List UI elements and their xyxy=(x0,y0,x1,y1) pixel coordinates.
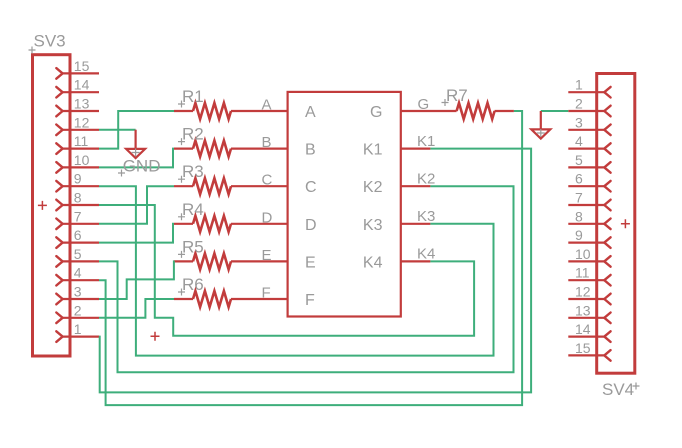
svg-text:12: 12 xyxy=(575,284,591,300)
wire SV4 p2 to GND2 xyxy=(541,110,569,112)
wire p2 to R6 (net F) xyxy=(99,299,174,318)
svg-text:13: 13 xyxy=(74,96,90,112)
wire p11 to R1 (net A) xyxy=(99,111,174,149)
SV3 pin 10 xyxy=(56,152,99,173)
svg-text:K4: K4 xyxy=(417,246,435,263)
ground GND2 xyxy=(531,111,550,139)
svg-text:1: 1 xyxy=(74,321,82,337)
wire p4 to R7 (net G) xyxy=(99,111,522,405)
SV3 pin 15 xyxy=(56,58,99,79)
resistor R5 xyxy=(174,237,288,269)
SV3 pin 14 xyxy=(56,77,99,98)
SV3 pin 8 xyxy=(56,190,99,211)
svg-text:C: C xyxy=(305,179,317,196)
connector SV3 body xyxy=(33,55,71,356)
svg-text:B: B xyxy=(262,134,272,151)
GND label xyxy=(118,157,160,177)
svg-text:E: E xyxy=(305,254,316,271)
svg-text:R4: R4 xyxy=(182,200,204,219)
resistor R6 xyxy=(174,275,288,307)
wire p5 to K2 xyxy=(99,186,514,372)
svg-text:GND: GND xyxy=(123,157,161,176)
U1 pin stub K3 xyxy=(401,223,431,225)
svg-text:2: 2 xyxy=(74,302,82,318)
SV4 pin 13 xyxy=(568,302,610,323)
svg-text:R5: R5 xyxy=(182,237,204,256)
SV3 pin 6 xyxy=(56,227,99,248)
svg-text:11: 11 xyxy=(575,265,590,281)
svg-text:3: 3 xyxy=(575,114,583,130)
ground GND xyxy=(126,130,145,158)
SV4 pin 8 xyxy=(568,208,610,229)
wire p3 to R5 (net E) xyxy=(99,261,175,299)
wire p9 to K3 xyxy=(99,186,494,355)
svg-text:K1: K1 xyxy=(363,142,383,159)
svg-text:A: A xyxy=(262,97,272,114)
SV3 origin cross xyxy=(38,201,47,210)
svg-text:K2: K2 xyxy=(417,170,435,187)
svg-text:10: 10 xyxy=(74,152,90,168)
svg-text:12: 12 xyxy=(74,114,90,130)
U1 pin stub K1 xyxy=(401,148,431,150)
svg-text:R2: R2 xyxy=(182,125,204,144)
svg-text:15: 15 xyxy=(575,340,591,356)
resistor R1 xyxy=(174,87,288,119)
svg-text:R7: R7 xyxy=(446,86,468,105)
svg-text:15: 15 xyxy=(74,58,90,74)
svg-text:R1: R1 xyxy=(182,87,204,106)
svg-text:F: F xyxy=(305,292,315,309)
svg-text:6: 6 xyxy=(575,171,583,187)
SV4 pin 6 xyxy=(568,171,610,192)
SV3 pin 13 xyxy=(56,96,99,117)
svg-text:E: E xyxy=(262,247,272,264)
SV4 origin cross xyxy=(621,219,630,228)
SV4 pin 14 xyxy=(568,321,610,342)
wire p6 to R4 (net D) xyxy=(99,224,174,243)
svg-text:10: 10 xyxy=(575,246,591,262)
svg-text:K1: K1 xyxy=(417,133,435,150)
svg-text:D: D xyxy=(262,209,273,226)
svg-text:G: G xyxy=(370,104,382,121)
svg-text:11: 11 xyxy=(74,133,89,149)
svg-text:G: G xyxy=(418,96,430,113)
SV4 pin 11 xyxy=(568,265,610,286)
svg-text:3: 3 xyxy=(74,284,82,300)
SV4 pin 3 xyxy=(568,114,610,135)
svg-text:K3: K3 xyxy=(363,217,383,234)
SV3 pin 9 xyxy=(56,171,99,192)
SV4 pin 5 xyxy=(568,152,610,173)
svg-text:4: 4 xyxy=(575,133,583,149)
SV4 pin 10 xyxy=(568,246,610,267)
svg-text:K3: K3 xyxy=(417,208,435,225)
IC U1 body xyxy=(288,92,401,317)
U1 pin stub K2 xyxy=(401,185,431,187)
SV4 pin 4 xyxy=(568,133,610,154)
SV3 pin 12 xyxy=(56,114,99,135)
resistor R3 xyxy=(174,162,288,194)
svg-text:F: F xyxy=(262,285,271,302)
resistor R4 xyxy=(174,200,288,232)
wire p10 to R2 (net B) xyxy=(99,149,174,168)
wire p8 to K4 xyxy=(99,205,474,336)
SV3 pin 1 xyxy=(56,321,99,342)
resistor R2 xyxy=(174,125,288,157)
svg-text:R3: R3 xyxy=(182,162,204,181)
SV4 pin 1 xyxy=(568,77,610,98)
svg-text:1: 1 xyxy=(575,77,583,93)
wire p7 to R3 (net C) xyxy=(99,186,174,224)
svg-text:A: A xyxy=(305,104,316,121)
svg-text:B: B xyxy=(305,142,316,159)
svg-text:R6: R6 xyxy=(182,275,204,294)
svg-text:14: 14 xyxy=(575,321,591,337)
connector SV4 body xyxy=(597,74,635,374)
svg-text:8: 8 xyxy=(74,190,82,206)
SV3 label xyxy=(29,32,66,54)
svg-text:4: 4 xyxy=(74,265,82,281)
svg-text:K4: K4 xyxy=(363,254,383,271)
origin cross (junction marker) xyxy=(151,332,160,341)
svg-text:13: 13 xyxy=(575,302,591,318)
SV4 pin 9 xyxy=(568,227,610,248)
svg-text:D: D xyxy=(305,217,317,234)
svg-text:2: 2 xyxy=(575,96,583,112)
SV3 pin 4 xyxy=(56,265,99,286)
U1 pin stub K4 xyxy=(401,260,431,262)
svg-text:5: 5 xyxy=(575,152,583,168)
SV4 pin 2 xyxy=(568,96,610,117)
svg-text:7: 7 xyxy=(575,190,583,206)
resistor R7 xyxy=(401,86,514,119)
svg-text:5: 5 xyxy=(74,246,82,262)
SV4 pin 7 xyxy=(568,190,610,211)
svg-text:C: C xyxy=(262,172,273,189)
svg-text:SV4: SV4 xyxy=(602,380,634,399)
svg-text:14: 14 xyxy=(74,77,90,93)
SV3 pin 3 xyxy=(56,284,99,305)
svg-text:8: 8 xyxy=(575,208,583,224)
svg-text:9: 9 xyxy=(74,171,82,187)
SV3 pin 2 xyxy=(56,302,99,323)
SV4 label xyxy=(602,380,640,399)
SV3 pin 7 xyxy=(56,208,99,229)
svg-text:6: 6 xyxy=(74,227,82,243)
SV4 pin 15 xyxy=(568,340,610,361)
svg-text:K2: K2 xyxy=(363,179,383,196)
SV3 pin 5 xyxy=(56,246,99,267)
SV3 pin 11 xyxy=(56,133,99,154)
svg-text:9: 9 xyxy=(575,227,583,243)
svg-text:7: 7 xyxy=(74,208,82,224)
SV4 pin 12 xyxy=(568,284,610,305)
wire p12 to GND xyxy=(99,129,136,131)
wire p1 to K1 xyxy=(99,149,531,393)
svg-text:SV3: SV3 xyxy=(34,32,66,51)
